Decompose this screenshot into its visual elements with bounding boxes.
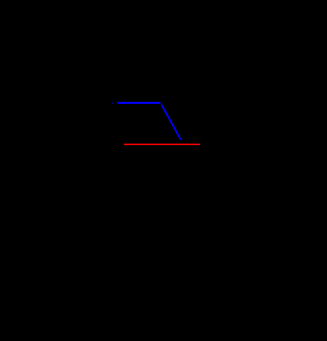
blue series horizontal segment [117,102,160,104]
faint blue data point [112,102,114,104]
red series line [124,143,200,145]
blue series falling segment [161,104,181,139]
